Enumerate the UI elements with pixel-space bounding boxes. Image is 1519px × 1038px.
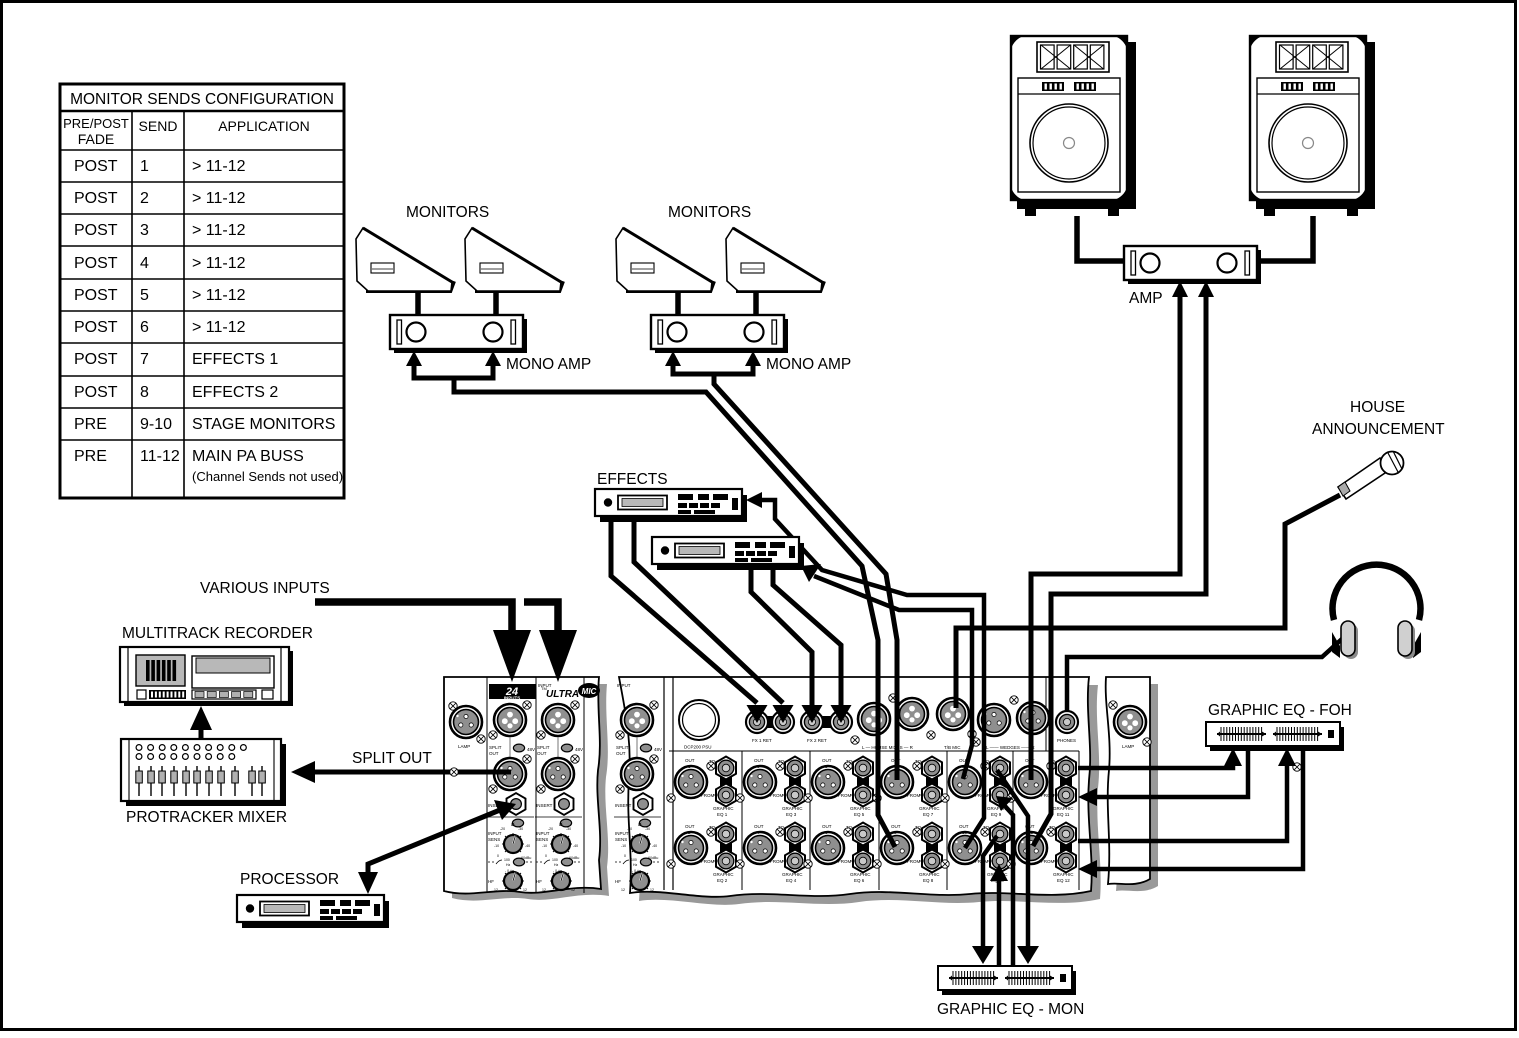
svg-text:POST: POST (74, 190, 118, 207)
wire effects 2 out R to FX2 RET R (down arrow) (773, 566, 841, 706)
wire various inputs line 2 (big arrow into mixer) (524, 602, 558, 634)
svg-text:POST: POST (74, 222, 118, 239)
svg-text:EFFECTS 2: EFFECTS 2 (192, 384, 278, 401)
svg-text:FX 1 RET: FX 1 RET (752, 738, 772, 743)
screw on panel left edge (450, 768, 458, 776)
svg-text:PRE: PRE (74, 416, 107, 433)
wire TO graphic EQ 9 to MON EQ (down arrow) (997, 770, 1028, 948)
monitor wedge at x=356 (356, 228, 454, 291)
svg-text:FX 2 RET: FX 2 RET (807, 738, 827, 743)
svg-text:GRAPHIC EQ - MON: GRAPHIC EQ - MON (937, 1001, 1084, 1018)
effects unit 1 (595, 489, 747, 522)
svg-text:ANNOUNCEMENT: ANNOUNCEMENT (1312, 421, 1445, 438)
svg-text:EQ 6: EQ 6 (854, 878, 865, 883)
svg-text:7: 7 (140, 351, 149, 368)
svg-text:PROCESSOR: PROCESSOR (240, 871, 339, 888)
wire mixer out12 to amp input 2 (up arrow) (1033, 292, 1206, 846)
svg-text:EFFECTS: EFFECTS (597, 471, 668, 488)
svg-text:EQ 1: EQ 1 (717, 812, 728, 817)
channel strip 3 (on main panel) (614, 683, 662, 892)
FX 2 RET jacks (801, 711, 852, 743)
svg-text:T/B MIC: T/B MIC (944, 745, 961, 750)
svg-text:> 11-12: > 11-12 (192, 255, 246, 272)
output column 2 (OUT 3/4 with graphic EQ jacks) (736, 757, 805, 878)
svg-text:EFFECTS 1: EFFECTS 1 (192, 351, 278, 368)
svg-text:STAGE MONITORS: STAGE MONITORS (192, 416, 335, 433)
svg-text:EQ 4: EQ 4 (786, 878, 797, 883)
svg-text:EQ 11: EQ 11 (1057, 812, 1070, 817)
svg-text:APPLICATION: APPLICATION (218, 118, 310, 134)
svg-text:EQ 5: EQ 5 (854, 812, 865, 817)
output column 4 (OUT 7/8 with graphic EQ jacks) (873, 757, 942, 878)
house mixes XLRs L and R (851, 694, 935, 750)
wire aux send to effects 1 input (arrow into right side) (760, 500, 984, 848)
svg-text:POST: POST (74, 287, 118, 304)
svg-text:> 11-12: > 11-12 (192, 287, 246, 304)
T/B MIC XLR (937, 698, 976, 750)
wire trunk mono amp 2 to mixer (out 8) (714, 376, 897, 780)
processor unit (237, 895, 389, 928)
svg-text:L —— WEDGES —— R: L —— WEDGES —— R (986, 745, 1035, 750)
mono amp 1 (390, 315, 527, 353)
svg-text:HOUSE: HOUSE (1350, 399, 1405, 416)
wire effects 2 out L to FX2 RET L (down arrow) (751, 566, 812, 706)
FX 1 RET jacks (746, 711, 794, 743)
wire speaker-right to amp (1260, 216, 1313, 261)
svg-text:POST: POST (74, 319, 118, 336)
svg-text:PROTRACKER MIXER: PROTRACKER MIXER (126, 809, 287, 826)
svg-text:ULTRA: ULTRA (546, 689, 579, 700)
svg-text:EQ 12: EQ 12 (1057, 878, 1070, 883)
wire split out to protracker (left arrow) (310, 770, 511, 775)
wire TO graphic EQ 13 to FOH (up arrow) (1078, 764, 1287, 841)
right torn panel piece shadow (1114, 684, 1158, 891)
mixer main panel shadow (628, 685, 1101, 905)
svg-text:SPLIT OUT: SPLIT OUT (352, 750, 432, 767)
svg-text:PRE/POST: PRE/POST (63, 116, 129, 131)
svg-text:5: 5 (140, 287, 149, 304)
monitor wedge at x=465 (465, 228, 563, 291)
svg-text:VARIOUS INPUTS: VARIOUS INPUTS (200, 580, 330, 597)
wire mono amp 2 inputs (U with arrows) (673, 362, 753, 374)
svg-text:1: 1 (140, 158, 149, 175)
svg-text:8: 8 (140, 384, 149, 401)
svg-text:POST: POST (74, 158, 118, 175)
svg-text:PHONES: PHONES (1057, 738, 1076, 743)
svg-text:> 11-12: > 11-12 (192, 222, 246, 239)
svg-text:3: 3 (140, 222, 149, 239)
wire FOH to FROM graphic EQ 13 (left arrow) (1095, 747, 1303, 869)
mixer left panel (24 inputs section) (444, 677, 601, 894)
mixer left panel shadow (452, 684, 609, 901)
svg-text:MIC: MIC (582, 687, 597, 696)
svg-text:AMP: AMP (1129, 290, 1163, 307)
svg-text:> 11-12: > 11-12 (192, 190, 246, 207)
wire insert to processor (double arrow) (368, 810, 500, 884)
wire wedge2 to mono amp 1 (493, 293, 499, 316)
svg-text:MULTITRACK RECORDER: MULTITRACK RECORDER (122, 625, 313, 642)
wire MON EQ to FROM graphic EQ 9 (up-left arrow) (1004, 805, 1013, 966)
graphic EQ FOH unit (1206, 722, 1344, 751)
channel strip 1 (487, 683, 535, 892)
output column 6 (OUT 11/12 with graphic EQ jacks) (1007, 757, 1076, 878)
right torn panel piece (1106, 677, 1302, 884)
output column 3 (OUT 5/6 with graphic EQ jacks) (804, 757, 873, 878)
output column 5 (OUT 9/10 with graphic EQ jacks) (941, 757, 1010, 878)
svg-text:> 11-12: > 11-12 (192, 158, 246, 175)
svg-text:6: 6 (140, 319, 149, 336)
wire mono amp 1 inputs (U with arrows) (414, 362, 493, 378)
wire mic to mixer T/B MIC input (956, 495, 1340, 708)
svg-text:L — HOUSE MIXES — R: L — HOUSE MIXES — R (862, 745, 914, 750)
wire protracker mixer to recorder (up arrow) (199, 726, 204, 739)
svg-text:SEND: SEND (139, 118, 178, 134)
svg-text:EQ 8: EQ 8 (923, 878, 934, 883)
svg-text:MONO AMP: MONO AMP (766, 356, 851, 373)
phones jack (1056, 711, 1078, 743)
headphones (1332, 565, 1421, 659)
monitor wedge at x=726 (726, 228, 824, 291)
protracker mixer unit (121, 739, 286, 806)
monitor wedge at x=616 (616, 228, 714, 291)
wire speaker-left to amp (1077, 216, 1124, 261)
svg-text:POST: POST (74, 351, 118, 368)
svg-text:LAMP: LAMP (1122, 744, 1134, 749)
wire effects 1 out L to FX1 RET L (down arrow) (611, 518, 757, 703)
svg-text:POST: POST (74, 255, 118, 272)
svg-text:EQ 9: EQ 9 (991, 812, 1002, 817)
wedges XLRs L and R (972, 696, 1049, 750)
wire TO graphic EQ 11 to FOH (up arrow) (1078, 764, 1233, 768)
table MONITOR SENDS CONFIGURATION (60, 84, 344, 498)
wire effects 1 out R to FX1 RET R (down arrow) (634, 518, 783, 703)
svg-text:9-10: 9-10 (140, 416, 172, 433)
channel strip 2 (535, 683, 583, 892)
svg-text:(Channel Sends not used): (Channel Sends not used) (192, 469, 343, 484)
output column 1 (OUT 1/2 with graphic EQ jacks) (667, 757, 736, 878)
mono amp 2 (651, 315, 788, 353)
effects unit 2 (652, 537, 804, 570)
svg-text:EQ 3: EQ 3 (786, 812, 797, 817)
wire MON EQ to FROM graphic EQ 10 (up arrow) (997, 878, 1002, 966)
svg-text:DCP200 PSU: DCP200 PSU (684, 745, 712, 750)
svg-text:PRE: PRE (74, 448, 107, 465)
svg-text:MONITORS: MONITORS (406, 204, 489, 221)
svg-text:EQ 2: EQ 2 (717, 878, 728, 883)
microphone (house announcement) (1338, 451, 1404, 499)
svg-text:EQ 7: EQ 7 (923, 812, 934, 817)
wire various inputs line 1 (big arrow into mixer) (315, 602, 512, 634)
wire aux send to effects 2 input (arrow up-left) (814, 576, 972, 779)
speaker right (PA cabinet) (1250, 36, 1375, 216)
svg-text:4: 4 (140, 255, 149, 272)
wire TO graphic EQ 10 to MON EQ (down arrow) (983, 836, 997, 948)
wire wedge4 to mono amp 2 (753, 293, 759, 316)
svg-text:POST: POST (74, 384, 118, 401)
wire wedge3 to mono amp 2 (675, 293, 681, 316)
graphic EQ MON unit (938, 966, 1076, 995)
svg-text:LAMP: LAMP (458, 744, 470, 749)
wire FOH to FROM graphic EQ 11 (left arrow) (1095, 747, 1248, 797)
svg-text:MONITOR SENDS CONFIGURATION: MONITOR SENDS CONFIGURATION (70, 91, 334, 108)
wire mixer phones out to headphones (1067, 638, 1343, 712)
speaker left (PA cabinet) (1011, 36, 1136, 216)
svg-text:11-12: 11-12 (140, 448, 180, 465)
multitrack recorder unit (120, 647, 293, 706)
svg-text:GRAPHIC EQ - FOH: GRAPHIC EQ - FOH (1208, 702, 1352, 719)
amp (stereo power amp) (1124, 246, 1261, 284)
svg-text:> 11-12: > 11-12 (192, 319, 246, 336)
svg-text:INPUTS: INPUTS (504, 696, 521, 701)
svg-text:FADE: FADE (78, 131, 115, 147)
svg-text:10: 10 (962, 830, 968, 835)
wire mixer wedges-R out to amp input 1 (up arrow) (1031, 292, 1180, 780)
wire wedge1 to mono amp 1 (415, 293, 421, 316)
svg-text:MONITORS: MONITORS (668, 204, 751, 221)
svg-text:2: 2 (140, 190, 149, 207)
svg-text:MONO AMP: MONO AMP (506, 356, 591, 373)
svg-text:MAIN PA BUSS: MAIN PA BUSS (192, 448, 304, 465)
wire trunk mono amp 1 to mixer (house mixes L) (454, 380, 895, 847)
mixer main panel body (619, 677, 1092, 897)
